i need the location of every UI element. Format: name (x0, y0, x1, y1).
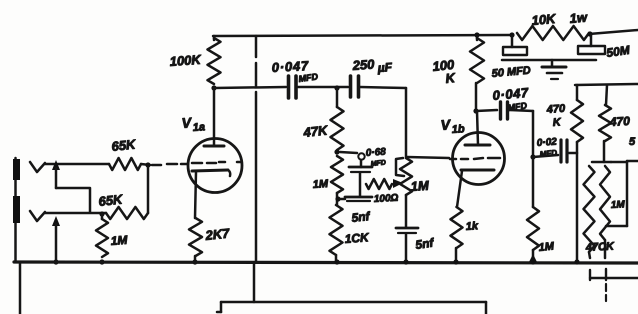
svg-text:1M: 1M (611, 199, 626, 211)
svg-text:1k: 1k (465, 220, 479, 233)
svg-text:47CK: 47CK (585, 240, 616, 254)
svg-text:2K7: 2K7 (204, 225, 231, 243)
svg-text:10K: 10K (531, 11, 558, 28)
svg-text:1CK: 1CK (344, 230, 370, 246)
svg-text:50 MFD: 50 MFD (491, 65, 531, 80)
svg-text:1w: 1w (569, 9, 588, 26)
svg-text:0·02: 0·02 (536, 137, 557, 149)
svg-text:1M: 1M (110, 233, 129, 248)
svg-text:V: V (440, 116, 452, 133)
svg-text:1M: 1M (538, 240, 555, 254)
svg-text:470: 470 (545, 103, 566, 116)
svg-text:5nf: 5nf (351, 209, 371, 225)
svg-text:MFD: MFD (539, 148, 557, 159)
svg-text:100K: 100K (169, 52, 203, 69)
svg-text:MFD: MFD (370, 159, 386, 168)
svg-text:1M: 1M (312, 178, 329, 191)
svg-text:65K: 65K (111, 136, 138, 154)
svg-text:100Ω: 100Ω (374, 193, 399, 205)
svg-text:50M: 50M (605, 43, 631, 60)
svg-text:1a: 1a (192, 121, 205, 134)
svg-text:5nf: 5nf (414, 235, 435, 252)
svg-text:K: K (552, 116, 562, 129)
svg-text:V: V (181, 114, 193, 131)
svg-text:µF: µF (376, 60, 393, 75)
svg-text:1b: 1b (451, 123, 465, 136)
svg-text:K: K (445, 70, 458, 86)
svg-text:MFD: MFD (298, 71, 319, 84)
svg-text:47K: 47K (302, 122, 330, 140)
svg-text:250: 250 (351, 56, 375, 73)
svg-text:0·68: 0·68 (365, 147, 386, 159)
svg-text:5: 5 (629, 136, 636, 148)
svg-text:470: 470 (608, 114, 630, 129)
svg-text:65K: 65K (98, 191, 125, 209)
svg-text:1M: 1M (410, 178, 430, 194)
